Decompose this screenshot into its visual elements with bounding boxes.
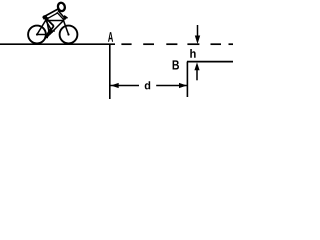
rider arm [58, 11, 65, 19]
cliff vertical line below A [109, 44, 111, 99]
crank arm upper [50, 32, 53, 35]
label A [108, 32, 113, 42]
dash 5 [211, 43, 222, 45]
rider head [57, 2, 66, 12]
bicycle stem and handlebar [64, 16, 68, 20]
rider torso belly line [45, 13, 58, 20]
d dimension left arrow [110, 83, 139, 88]
crank arm lower [47, 35, 50, 38]
dash 4 (under h arrow) [187, 43, 199, 45]
ground line (upper level) [0, 43, 115, 45]
rider second arm line [57, 12, 64, 19]
h dimension down arrow [195, 25, 200, 44]
lower wall vertical [186, 62, 188, 97]
dash 2 [143, 43, 154, 45]
rider torso back line [44, 9, 58, 17]
bicycle frame down tube [50, 21, 64, 35]
lower ledge line [187, 61, 233, 63]
B up arrow [194, 62, 199, 80]
pedal lower [44, 37, 48, 39]
label d [145, 81, 151, 89]
rear hub dot [36, 33, 38, 35]
bicycle front wheel [60, 26, 78, 44]
bicycle frame top tube [47, 20, 64, 22]
label B [173, 60, 179, 69]
rider hip joint blob [42, 15, 47, 19]
rider thigh [46, 18, 54, 26]
dash 3 [166, 43, 177, 45]
bicycle rear wheel [28, 26, 46, 44]
d dimension right arrow [156, 83, 187, 88]
hands on handlebar [64, 17, 66, 19]
bicycle frame seat stay [37, 19, 47, 35]
label h [190, 49, 195, 58]
pedal upper [51, 30, 55, 32]
dashed level line from A: dash 1 [121, 43, 131, 45]
front hub dot [67, 33, 69, 35]
dash 6 [229, 43, 234, 45]
bicycle fork [64, 21, 69, 35]
bicycle frame seat tube [47, 19, 50, 35]
bicycle frame chain stay [37, 34, 50, 36]
front foot on pedal [49, 31, 53, 34]
rider back leg [45, 20, 50, 36]
rider shin [49, 26, 54, 34]
rear foot on pedal [45, 35, 48, 37]
bicycle seat [43, 17, 48, 19]
